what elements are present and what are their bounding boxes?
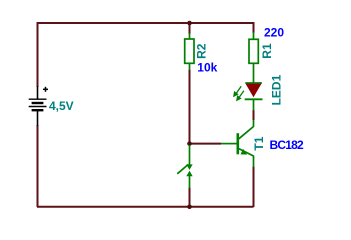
wire LED to collector <box>253 110 255 120</box>
junction top node <box>187 21 192 26</box>
wire left rail lower <box>37 125 39 207</box>
svg-text:10k: 10k <box>197 61 217 75</box>
wire emitter to bottom rail <box>253 167 255 208</box>
wire left rail upper <box>37 22 39 87</box>
wire base node to transistor <box>190 143 222 145</box>
resistor R2 <box>185 33 194 70</box>
wire switch to bottom rail <box>189 188 191 208</box>
wire R2 to base node <box>189 70 191 145</box>
svg-text:BC182: BC182 <box>270 138 304 152</box>
wire bottom rail <box>37 206 254 208</box>
battery plus sign <box>43 87 48 92</box>
junction bottom node <box>187 205 192 210</box>
svg-text:R1: R1 <box>260 43 274 59</box>
transistor T1 <box>221 120 254 167</box>
junction base node <box>187 141 192 146</box>
svg-text:LED1: LED1 <box>269 74 283 105</box>
switch S1 <box>177 145 191 188</box>
wire top rail <box>37 22 254 24</box>
resistor R1 <box>249 32 258 83</box>
LED LED1 <box>245 83 263 111</box>
battery B1 <box>29 86 47 126</box>
LED light arrows <box>234 86 244 100</box>
svg-text:4,5V: 4,5V <box>49 99 74 113</box>
wire middle column upper <box>189 22 191 34</box>
svg-text:R2: R2 <box>195 43 209 59</box>
transistor emitter arrow <box>241 149 248 155</box>
wire right column top <box>253 22 255 33</box>
svg-text:220: 220 <box>264 26 284 40</box>
svg-text:T1: T1 <box>252 136 266 150</box>
